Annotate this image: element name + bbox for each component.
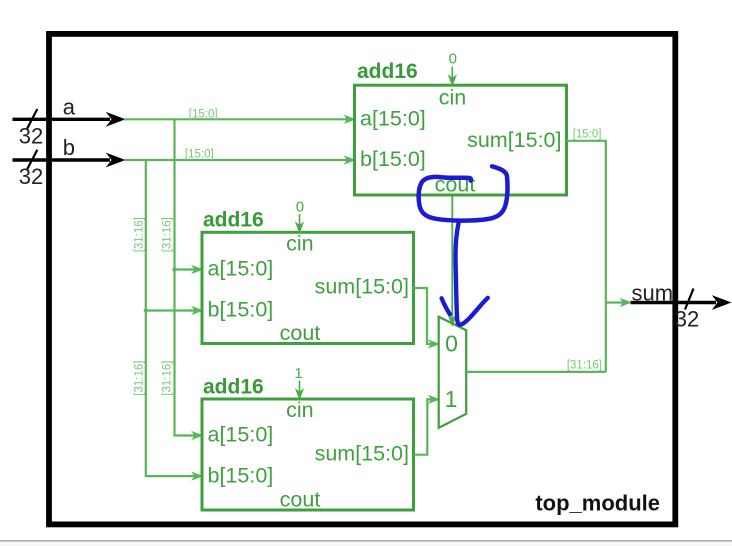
svg-text:cout: cout	[280, 321, 321, 345]
adder U3 block add16	[202, 399, 414, 510]
blue annotation loop around cout	[419, 166, 508, 220]
adder U1 block add16	[355, 85, 567, 195]
footer separator line	[0, 540, 732, 541]
svg-text:top_module: top_module	[535, 491, 660, 516]
wire a[31:16] vertical branch	[175, 119, 196, 435]
svg-text:[15:0]: [15:0]	[189, 108, 218, 120]
svg-text:[15:0]: [15:0]	[185, 148, 214, 160]
svg-text:1: 1	[294, 365, 302, 382]
svg-text:sum[15:0]: sum[15:0]	[315, 441, 409, 465]
svg-text:cin: cin	[439, 86, 466, 110]
svg-text:b[15:0]: b[15:0]	[208, 463, 274, 487]
svg-text:[31:16]: [31:16]	[162, 217, 174, 252]
svg-text:add16: add16	[357, 60, 418, 83]
svg-text:sum: sum	[632, 280, 674, 305]
svg-text:b[15:0]: b[15:0]	[208, 298, 274, 322]
adder U2 block add16	[202, 232, 414, 343]
svg-text:cout: cout	[280, 488, 321, 512]
svg-text:[15:0]: [15:0]	[573, 129, 602, 141]
wire U1 cout to mux select	[451, 197, 453, 320]
svg-text:[31:16]: [31:16]	[567, 360, 602, 372]
wire b[31:16] vertical branch	[146, 160, 195, 476]
input port b (black wire)	[13, 158, 111, 161]
junction on a branch	[172, 267, 176, 271]
arrowhead into U2 cin	[296, 223, 303, 233]
arrowhead into U3 a port	[193, 432, 203, 439]
branch to U2 b port	[146, 309, 195, 311]
width slash b	[27, 150, 37, 170]
svg-text:32: 32	[19, 124, 43, 149]
wire b[15:0] to U1	[124, 159, 348, 161]
wire U1 sum to bus join	[567, 141, 606, 372]
branch to U2 a port	[175, 268, 196, 270]
svg-text:a[15:0]: a[15:0]	[208, 423, 274, 447]
arrowhead cout into mux select	[449, 316, 456, 326]
arrowhead into U2 a port	[193, 266, 203, 273]
wire bus join to output sum	[606, 301, 624, 303]
arrowhead into U3 cin	[296, 390, 303, 400]
wire mux output [31:16]	[466, 371, 606, 373]
junction on b branch	[144, 308, 148, 312]
svg-text:a[15:0]: a[15:0]	[208, 257, 274, 281]
blue annotation arrow shaft	[456, 224, 488, 325]
svg-text:sum[15:0]: sum[15:0]	[467, 128, 561, 152]
wire a[15:0] to U1	[124, 118, 348, 120]
svg-text:0: 0	[296, 198, 304, 215]
svg-text:cin: cin	[286, 398, 313, 422]
svg-text:a: a	[63, 95, 76, 120]
wire const0 to U1 cin	[451, 67, 453, 79]
svg-text:[31:16]: [31:16]	[134, 217, 146, 252]
svg-text:b[15:0]: b[15:0]	[360, 147, 426, 171]
svg-text:0: 0	[449, 51, 457, 68]
blue annotation arrowhead left wing	[442, 298, 450, 314]
svg-text:add16: add16	[203, 209, 264, 232]
arrowhead into mux 1	[429, 396, 439, 403]
svg-text:a[15:0]: a[15:0]	[360, 107, 426, 131]
width slash sum	[685, 289, 694, 310]
footer strip	[0, 542, 732, 546]
wire const1 to U3 cin	[299, 381, 301, 393]
width slash a	[27, 109, 37, 129]
svg-text:0: 0	[445, 331, 458, 357]
svg-text:b: b	[63, 135, 75, 160]
module boundary top_module	[49, 34, 675, 525]
svg-text:add16: add16	[203, 376, 264, 399]
output sum arrowhead	[712, 295, 732, 310]
wire U2 sum to mux input 0	[414, 288, 433, 344]
svg-text:[31:16]: [31:16]	[134, 361, 146, 396]
svg-text:1: 1	[445, 386, 458, 412]
arrowhead into U1 cin	[449, 76, 456, 86]
svg-text:sum[15:0]: sum[15:0]	[315, 275, 409, 299]
arrowhead into U1 a port	[345, 116, 355, 123]
input port b arrowhead	[106, 153, 126, 168]
svg-text:cin: cin	[286, 232, 313, 256]
arrowhead into mux 0	[429, 340, 439, 347]
svg-text:32: 32	[675, 307, 699, 332]
svg-text:32: 32	[19, 164, 43, 189]
input port a (black wire)	[13, 118, 111, 121]
output port sum (black wire)	[631, 301, 717, 304]
arrowhead into U3 b port	[193, 473, 203, 480]
green arrowhead sum out	[621, 299, 631, 306]
arrowhead into U2 b port	[193, 307, 203, 314]
mux U4	[439, 317, 467, 428]
svg-text:[31:16]: [31:16]	[162, 361, 174, 396]
wire const0 to U2 cin	[299, 214, 301, 226]
input port a arrowhead	[106, 112, 126, 127]
wire U3 sum to mux input 1	[414, 399, 433, 454]
arrowhead into U1 b port	[345, 156, 355, 163]
